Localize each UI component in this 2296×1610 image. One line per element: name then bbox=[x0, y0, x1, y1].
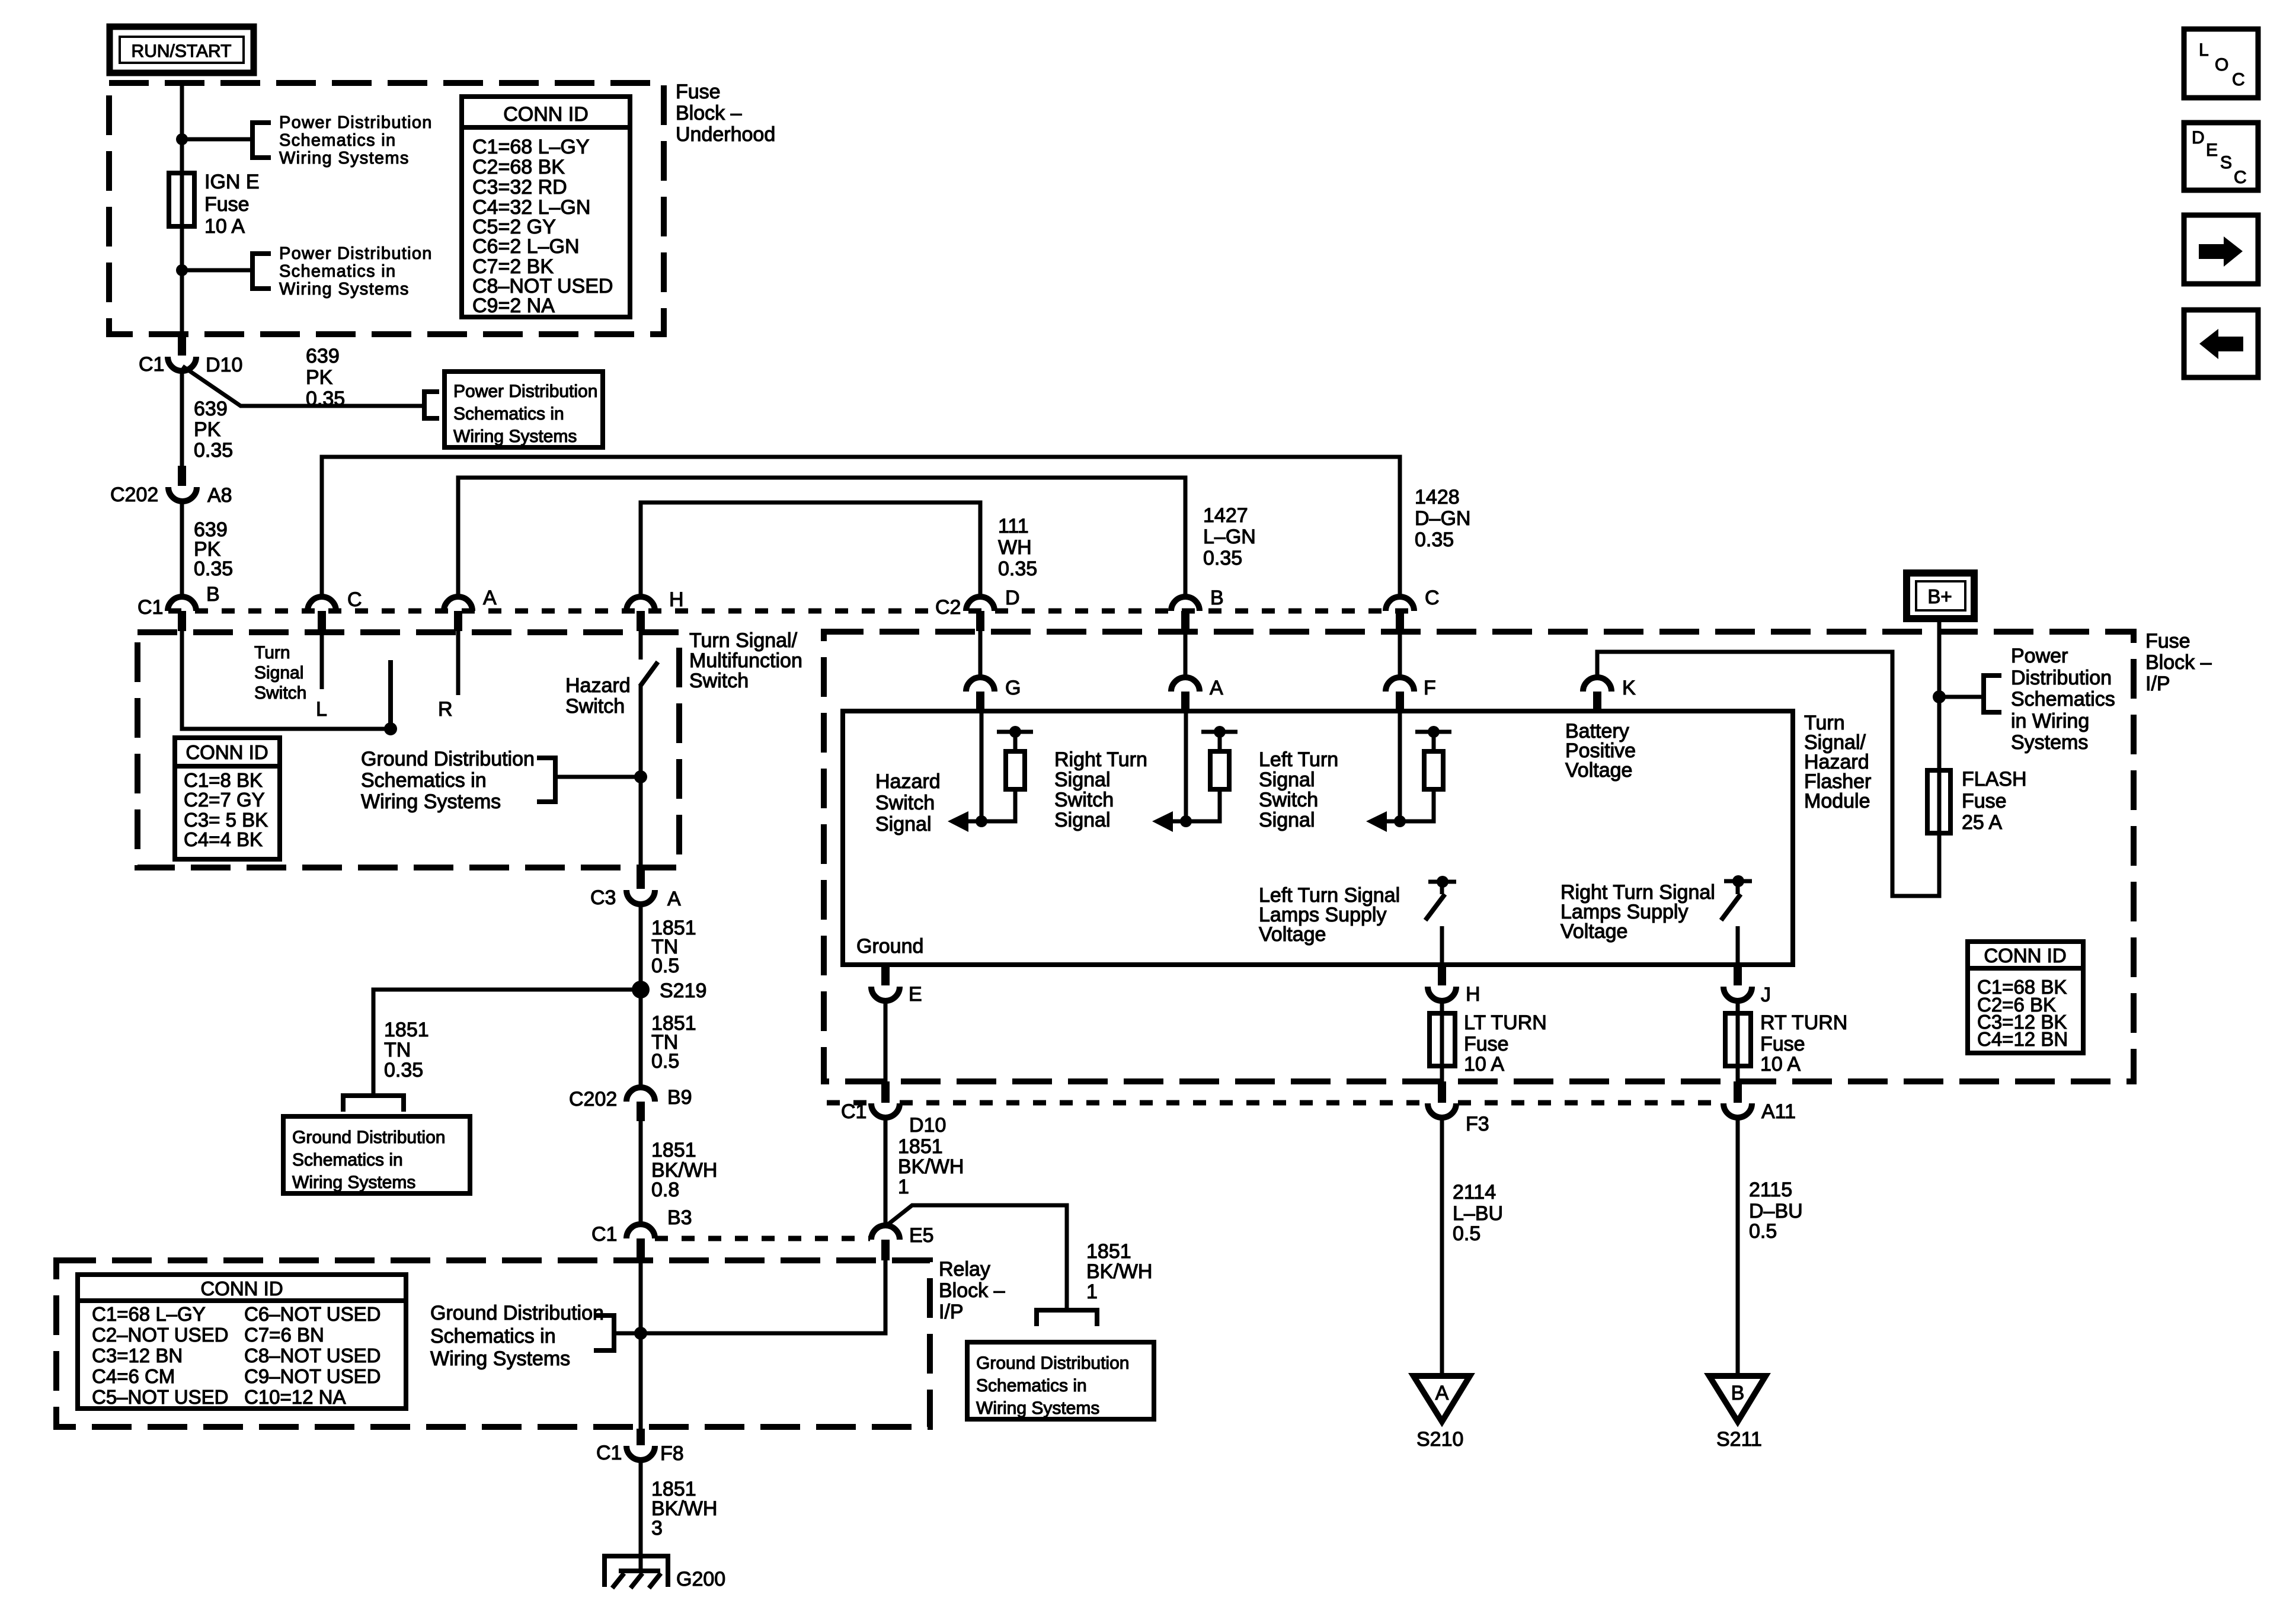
connector A arc (flasher module) bbox=[1171, 677, 1200, 692]
svg-text:F8: F8 bbox=[660, 1442, 684, 1465]
svg-text:LT TURN: LT TURN bbox=[1464, 1012, 1547, 1034]
label hazard switch bbox=[565, 674, 631, 718]
wire label 639 PK 0.35 (branch to power distribution) bbox=[306, 345, 345, 410]
connector C2 pin D arc bbox=[966, 597, 994, 611]
svg-text:25 A: 25 A bbox=[1962, 811, 2002, 834]
svg-text:Underhood: Underhood bbox=[676, 123, 775, 146]
connector H terminal cup bbox=[1428, 987, 1456, 1001]
legend left arrow box bbox=[2184, 310, 2258, 377]
label right turn signal lamps supply voltage bbox=[1560, 881, 1715, 943]
reference text ground distribution schematics (switch) bbox=[361, 748, 535, 813]
svg-text:0.35: 0.35 bbox=[1203, 547, 1242, 569]
svg-text:Voltage: Voltage bbox=[1560, 920, 1627, 943]
svg-text:C: C bbox=[347, 588, 362, 611]
connector C1 D10 pin bar bbox=[178, 337, 186, 356]
flasher module box U1 bbox=[843, 711, 1793, 965]
connector E terminal cup bbox=[871, 987, 900, 1001]
right turn input channel wire A bbox=[1184, 711, 1188, 821]
svg-text:Ground Distribution: Ground Distribution bbox=[430, 1302, 604, 1324]
svg-text:I/P: I/P bbox=[2145, 673, 2170, 695]
svg-text:0.8: 0.8 bbox=[651, 1179, 679, 1201]
svg-text:Wiring Systems: Wiring Systems bbox=[361, 790, 501, 813]
fuse RT TURN 10A bbox=[1725, 1013, 1751, 1066]
svg-text:C4=4 BK: C4=4 BK bbox=[184, 828, 263, 850]
svg-text:0.35: 0.35 bbox=[194, 439, 233, 462]
wire S219 branch to ground reference bbox=[373, 990, 641, 1093]
wire ground junction to C1 F8 bbox=[639, 1333, 643, 1430]
wire J to RT TURN fuse bbox=[1736, 999, 1740, 1013]
wire label 1851 BK/WH 3 bbox=[651, 1478, 717, 1539]
node RUN/START voltage box bbox=[110, 27, 254, 73]
svg-text:A: A bbox=[667, 888, 681, 910]
svg-text:Signal: Signal bbox=[875, 813, 932, 836]
svg-text:E5: E5 bbox=[909, 1224, 934, 1247]
junction hazard arrow node bbox=[976, 815, 987, 827]
svg-text:CONN ID: CONN ID bbox=[1984, 945, 2066, 966]
svg-text:C1: C1 bbox=[137, 596, 163, 619]
pin bar F bbox=[1396, 692, 1404, 711]
connector C202 A8 terminal cup bbox=[168, 487, 197, 501]
fuse block underhood dashed box bbox=[109, 83, 664, 334]
off-page bracket (switch ground reference) bbox=[537, 758, 555, 802]
connector J terminal cup bbox=[1723, 987, 1752, 1001]
pin bar C2C bbox=[1396, 611, 1404, 631]
svg-text:Signal: Signal bbox=[1259, 809, 1315, 831]
svg-text:Wiring Systems: Wiring Systems bbox=[279, 149, 410, 168]
svg-text:C2–NOT USED: C2–NOT USED bbox=[92, 1324, 228, 1346]
pin bar K bbox=[1593, 692, 1601, 711]
wire L contact stub bbox=[320, 631, 324, 689]
svg-text:C2=68 BK: C2=68 BK bbox=[472, 156, 565, 178]
svg-text:B: B bbox=[1731, 1382, 1745, 1404]
wire H to LT TURN fuse bbox=[1440, 999, 1444, 1013]
svg-text:0.5: 0.5 bbox=[1453, 1222, 1480, 1245]
svg-text:Ground Distribution: Ground Distribution bbox=[361, 748, 535, 770]
svg-text:Wiring Systems: Wiring Systems bbox=[279, 280, 410, 299]
label LT TURN Fuse 10 A bbox=[1464, 1012, 1547, 1076]
svg-text:S210: S210 bbox=[1416, 1428, 1463, 1451]
wire C202 B9 to C1 B3 bbox=[639, 1120, 643, 1225]
svg-text:Voltage: Voltage bbox=[1259, 923, 1326, 946]
off-page bracket down (S219 ground reference) bbox=[343, 1096, 404, 1112]
svg-text:Left Turn: Left Turn bbox=[1259, 748, 1338, 771]
svg-text:L–GN: L–GN bbox=[1203, 526, 1256, 548]
arrow left turn signal switch signal bbox=[1384, 820, 1400, 824]
resistor R1 tap bar bbox=[997, 730, 1033, 734]
wire bus H to D 111 WH bbox=[641, 502, 980, 597]
fuse block I/P dashed box bbox=[824, 632, 2134, 1081]
wire C3 A to S219 bbox=[639, 902, 643, 990]
svg-text:S219: S219 bbox=[660, 980, 706, 1002]
wire to ground distribution reference (switch) bbox=[558, 775, 641, 779]
connector C3 A terminal cup bbox=[626, 890, 655, 904]
svg-text:Power: Power bbox=[2011, 645, 2068, 667]
svg-text:Power Distribution: Power Distribution bbox=[453, 382, 597, 401]
svg-text:Switch: Switch bbox=[689, 670, 749, 692]
svg-text:B: B bbox=[1210, 587, 1224, 609]
svg-text:R: R bbox=[438, 698, 453, 721]
junction right turn arrow node bbox=[1180, 815, 1192, 827]
svg-text:10 A: 10 A bbox=[204, 215, 245, 238]
svg-text:Switch: Switch bbox=[1259, 789, 1318, 811]
off-page bracket down (E5 ground reference) bbox=[1037, 1310, 1097, 1326]
connector C3 A pin bar bbox=[637, 869, 645, 889]
svg-text:Switch: Switch bbox=[875, 792, 935, 814]
svg-text:A: A bbox=[1210, 677, 1223, 699]
wire C to F bbox=[1398, 631, 1402, 678]
reference text power distribution schematics (upper) bbox=[279, 113, 433, 168]
svg-text:Ground Distribution: Ground Distribution bbox=[976, 1353, 1129, 1373]
reference text power distribution schematics (I/P) bbox=[2011, 645, 2115, 754]
svg-text:J: J bbox=[1761, 984, 1771, 1006]
svg-text:C1=68 L–GY: C1=68 L–GY bbox=[472, 136, 590, 158]
wire R contact stub bbox=[456, 631, 461, 695]
svg-text:Systems: Systems bbox=[2011, 731, 2088, 754]
svg-text:Switch: Switch bbox=[254, 683, 306, 703]
svg-text:WH: WH bbox=[998, 536, 1032, 559]
wire label 1851 BK/WH 1 (ground branch) bbox=[1086, 1240, 1152, 1303]
wire left lamps output to module edge bbox=[1440, 926, 1444, 965]
svg-text:C202: C202 bbox=[110, 484, 158, 506]
wire bus C to C 1428 D-GN bbox=[322, 457, 1400, 597]
right turn lamps relay contact pivot bar bbox=[1724, 879, 1752, 884]
pin bar B3 bbox=[637, 1238, 645, 1260]
svg-text:1851: 1851 bbox=[898, 1135, 943, 1158]
svg-text:D10: D10 bbox=[206, 354, 242, 376]
svg-text:Fuse: Fuse bbox=[676, 81, 721, 103]
switch blade left turn lamps bbox=[1425, 894, 1445, 920]
svg-text:RT TURN: RT TURN bbox=[1760, 1012, 1847, 1034]
wire label 111 WH 0.35 bbox=[998, 515, 1037, 580]
svg-text:Switch: Switch bbox=[1054, 789, 1114, 811]
wire branch to power distribution reference (upper) bbox=[182, 137, 250, 142]
relay block I/P dashed box bbox=[56, 1260, 930, 1427]
svg-text:C1: C1 bbox=[591, 1223, 617, 1246]
svg-text:C3=12 BN: C3=12 BN bbox=[92, 1345, 183, 1366]
resistor R2 tap bar bbox=[1201, 730, 1237, 734]
wire branch to power distribution reference (I/P) bbox=[1939, 695, 1981, 699]
svg-text:Schematics in: Schematics in bbox=[279, 131, 396, 150]
wire hazard switch feed from H bbox=[639, 631, 643, 660]
svg-text:Schematics in: Schematics in bbox=[430, 1325, 556, 1347]
svg-text:Fuse: Fuse bbox=[1962, 790, 2007, 812]
off-page bracket (I/P power distribution) bbox=[1984, 676, 2001, 712]
svg-text:Block –: Block – bbox=[676, 102, 742, 124]
connector C1 B3 arc bbox=[626, 1224, 655, 1238]
svg-text:111: 111 bbox=[998, 515, 1029, 537]
label hazard switch signal bbox=[875, 770, 941, 836]
label right turn signal switch signal bbox=[1054, 748, 1147, 831]
pin bar B2 bbox=[1181, 611, 1189, 631]
svg-text:C9–NOT USED: C9–NOT USED bbox=[244, 1365, 380, 1387]
svg-text:IGN E: IGN E bbox=[204, 171, 260, 193]
pin bar G bbox=[976, 692, 984, 711]
wire tap to R2 bbox=[1218, 732, 1222, 751]
junction R2 tap bbox=[1214, 726, 1226, 738]
off-page bracket (upper power distribution) bbox=[252, 123, 271, 158]
CONN ID table relay block bbox=[78, 1275, 406, 1409]
svg-text:C4=6 CM: C4=6 CM bbox=[92, 1365, 175, 1387]
wire C1 F8 to G200 bbox=[639, 1458, 643, 1571]
legend DESC box bbox=[2184, 123, 2258, 190]
hazard input channel wire G bbox=[980, 711, 984, 821]
svg-text:C202: C202 bbox=[569, 1088, 617, 1110]
connector E pin bar (module ground) bbox=[881, 965, 890, 985]
svg-text:BK/WH: BK/WH bbox=[898, 1156, 964, 1178]
connector F3 terminal cup bbox=[1428, 1103, 1456, 1118]
svg-text:G: G bbox=[1005, 677, 1021, 699]
pin bar A (module) bbox=[1181, 692, 1189, 711]
svg-text:1428: 1428 bbox=[1415, 486, 1460, 508]
label RT TURN Fuse 10 A bbox=[1760, 1012, 1847, 1076]
svg-text:C3: C3 bbox=[590, 886, 616, 909]
connector C202 A8 pin bar bbox=[178, 466, 186, 486]
pin bar E5 bbox=[881, 1240, 890, 1260]
svg-text:C1: C1 bbox=[139, 353, 164, 376]
connector C1 D10 terminal cup bbox=[168, 357, 196, 371]
svg-text:E: E bbox=[2206, 140, 2218, 160]
svg-text:CONN ID: CONN ID bbox=[186, 741, 268, 763]
connector C1 pin A arc bbox=[444, 597, 472, 611]
svg-text:Ground Distribution: Ground Distribution bbox=[292, 1128, 445, 1147]
svg-text:Hazard: Hazard bbox=[565, 674, 631, 697]
svg-text:A8: A8 bbox=[207, 484, 232, 507]
hazard switch blade bbox=[640, 662, 658, 686]
wire R2 to arrow node bbox=[1186, 789, 1220, 821]
label left turn signal lamps supply voltage bbox=[1259, 884, 1400, 946]
label C2 (switch connector row) bbox=[932, 596, 966, 616]
left turn input channel wire F bbox=[1398, 711, 1402, 821]
svg-text:2115: 2115 bbox=[1749, 1179, 1792, 1201]
svg-text:C5–NOT USED: C5–NOT USED bbox=[92, 1386, 228, 1408]
pin bar H bbox=[637, 611, 645, 631]
splice S211 triangle bbox=[1709, 1376, 1766, 1422]
svg-text:C1=68 L–GY: C1=68 L–GY bbox=[92, 1303, 206, 1325]
label turn signal/hazard flasher module bbox=[1804, 712, 1871, 812]
wire F3 to S210 bbox=[1440, 1116, 1444, 1376]
splice S210 triangle bbox=[1414, 1376, 1470, 1422]
svg-text:Fuse: Fuse bbox=[1760, 1033, 1805, 1055]
reference text power distribution schematics (lower) bbox=[279, 244, 433, 299]
svg-text:L: L bbox=[316, 698, 327, 721]
svg-text:Schematics in: Schematics in bbox=[279, 262, 396, 281]
wire D to G bbox=[978, 631, 983, 678]
wire D10 down to E5 bbox=[884, 1116, 888, 1227]
wire diagonal from C1 D10 to reference bbox=[183, 366, 422, 406]
resistor R3 tap bar bbox=[1415, 730, 1451, 734]
connector C1 F8 pin bar bbox=[637, 1429, 645, 1445]
svg-text:L–BU: L–BU bbox=[1453, 1202, 1503, 1225]
junction R3 tap bbox=[1428, 726, 1440, 738]
wire label 1851 TN 0.5 (C3 to S219) bbox=[651, 917, 696, 977]
wire IGN E fuse to C1 D10 connector bbox=[180, 226, 184, 338]
connector row dotted line B3 to E5 bbox=[655, 1236, 870, 1241]
fuse LT TURN 10A bbox=[1430, 1013, 1455, 1066]
connector J pin bar (module right lamps) bbox=[1734, 965, 1742, 985]
connector C1 pin H arc bbox=[626, 597, 655, 611]
connector C2 pin B arc bbox=[1171, 597, 1200, 611]
wire B3 down to ground junction bbox=[639, 1260, 643, 1333]
svg-text:B+: B+ bbox=[1927, 585, 1952, 607]
junction left lamps pivot bbox=[1437, 876, 1448, 888]
junction ground tie in relay block bbox=[634, 1327, 647, 1340]
svg-text:H: H bbox=[669, 588, 684, 611]
junction hazard ground reference bbox=[634, 770, 647, 783]
off-page bracket (power distribution boxed reference) bbox=[424, 392, 439, 418]
connector row dotted line C1/C2 bbox=[168, 609, 1414, 614]
svg-text:A11: A11 bbox=[1761, 1100, 1796, 1123]
resistor R2 bbox=[1210, 751, 1229, 789]
wire pivot stub bbox=[1440, 882, 1444, 894]
connector C1 pin B arc bbox=[168, 597, 196, 611]
label relay block I/P bbox=[939, 1258, 1005, 1323]
wire label 1428 D-GN 0.35 bbox=[1415, 486, 1470, 551]
svg-text:PK: PK bbox=[194, 418, 221, 441]
wire label 639 PK 0.35 (C1 D10 to C202 A8) bbox=[194, 398, 233, 462]
svg-text:Power Distribution: Power Distribution bbox=[279, 244, 433, 263]
fuse IGN E 10A bbox=[169, 173, 194, 226]
svg-text:Fuse: Fuse bbox=[204, 193, 250, 216]
label fuse block I/P bbox=[2145, 630, 2212, 695]
pin bar B bbox=[178, 611, 186, 631]
svg-text:C2=7 GY: C2=7 GY bbox=[184, 789, 265, 811]
wire C202 A8 to C1 B bbox=[180, 501, 184, 597]
switch blade right turn lamps bbox=[1721, 894, 1741, 920]
svg-text:1851: 1851 bbox=[651, 1139, 696, 1161]
connector G arc (flasher module) bbox=[966, 677, 994, 692]
svg-text:2114: 2114 bbox=[1453, 1181, 1496, 1204]
svg-text:639: 639 bbox=[194, 398, 228, 420]
pin bar C bbox=[318, 611, 326, 631]
wire RUN/START feed down to IGN E fuse bbox=[180, 83, 184, 173]
svg-text:1851: 1851 bbox=[384, 1019, 429, 1041]
label IGN E Fuse 10 A bbox=[204, 171, 260, 238]
junction on ignition feed (upper) bbox=[176, 133, 188, 145]
connector C1 D10 terminal cup (I/P) bbox=[871, 1103, 900, 1118]
wire bus A to B 1427 L-GN bbox=[458, 478, 1185, 597]
connector C1 F8 terminal cup bbox=[626, 1446, 655, 1460]
wire B to A (module) bbox=[1184, 631, 1188, 678]
svg-text:Module: Module bbox=[1804, 790, 1870, 812]
wire A11 to S211 bbox=[1736, 1116, 1740, 1376]
wire diagonal branch to ground reference (E5 tap) bbox=[887, 1205, 1067, 1308]
svg-text:C4=12 BN: C4=12 BN bbox=[1977, 1028, 2068, 1050]
wire bracket to ground junction bbox=[614, 1331, 641, 1336]
svg-text:C6–NOT USED: C6–NOT USED bbox=[244, 1303, 380, 1325]
svg-text:C9=2 NA: C9=2 NA bbox=[472, 295, 555, 317]
label battery positive voltage bbox=[1565, 720, 1636, 782]
wire tap to R1 bbox=[1013, 732, 1018, 751]
connector H pin bar (module left lamps) bbox=[1438, 965, 1446, 985]
svg-text:S: S bbox=[2220, 153, 2232, 172]
pin bar D bbox=[976, 611, 984, 631]
svg-text:in Wiring: in Wiring bbox=[2011, 710, 2089, 732]
wire label 1851 TN 0.35 bbox=[384, 1019, 429, 1081]
junction left turn arrow node bbox=[1394, 815, 1406, 827]
svg-text:639: 639 bbox=[306, 345, 340, 367]
wire B+ feed down bbox=[1937, 619, 1942, 770]
svg-text:H: H bbox=[1466, 983, 1480, 1006]
legend right arrow box bbox=[2184, 215, 2258, 284]
svg-text:10 A: 10 A bbox=[1760, 1053, 1801, 1076]
wire S219 to C202 B9 bbox=[639, 990, 643, 1089]
svg-text:Schematics in: Schematics in bbox=[976, 1376, 1087, 1395]
connector C1 D10 pin bar (I/P) bbox=[881, 1081, 890, 1103]
svg-text:D: D bbox=[2192, 128, 2205, 148]
svg-text:Fuse: Fuse bbox=[2145, 630, 2191, 652]
svg-text:Power Distribution: Power Distribution bbox=[279, 113, 433, 132]
turn signal / multifunction switch dashed box bbox=[137, 632, 679, 868]
wire tap to R3 bbox=[1432, 732, 1436, 751]
pin bar A bbox=[454, 611, 462, 631]
fuse block underhood label bbox=[676, 81, 775, 146]
svg-text:Distribution: Distribution bbox=[2011, 667, 2112, 689]
wire label 1851 TN 0.5 (S219 to C202 B9) bbox=[651, 1012, 696, 1073]
svg-text:A: A bbox=[483, 587, 497, 609]
arrow right turn signal switch signal bbox=[1171, 820, 1186, 824]
svg-text:Schematics: Schematics bbox=[2011, 688, 2115, 710]
wire label 639 PK 0.35 (C202 A8 to C1 B) bbox=[194, 518, 233, 580]
junction right lamps pivot bbox=[1732, 875, 1744, 887]
wire LT TURN fuse to F3 bbox=[1440, 1066, 1444, 1083]
wire pivot stub right bbox=[1736, 881, 1740, 894]
pin bar B9 bbox=[637, 1102, 645, 1121]
svg-text:RUN/START: RUN/START bbox=[132, 41, 232, 61]
connector F3 pin bar bbox=[1438, 1081, 1446, 1103]
wire hazard switch to C3 A bbox=[639, 684, 643, 870]
svg-text:Turn Signal/: Turn Signal/ bbox=[689, 629, 798, 652]
svg-text:1427: 1427 bbox=[1203, 504, 1248, 527]
wire RT TURN fuse to A11 bbox=[1736, 1066, 1740, 1083]
svg-text:C: C bbox=[2234, 168, 2247, 187]
svg-text:C8–NOT USED: C8–NOT USED bbox=[244, 1345, 380, 1366]
wire branch to power distribution reference (lower) bbox=[182, 268, 250, 273]
svg-text:CONN ID: CONN ID bbox=[200, 1278, 283, 1299]
svg-text:Block –: Block – bbox=[2145, 651, 2212, 674]
svg-text:Wiring Systems: Wiring Systems bbox=[430, 1347, 570, 1370]
CONN ID table fuse block I/P bbox=[1968, 942, 2083, 1053]
svg-text:1: 1 bbox=[1086, 1281, 1098, 1303]
svg-text:10 A: 10 A bbox=[1464, 1053, 1504, 1076]
svg-text:B3: B3 bbox=[667, 1206, 692, 1229]
svg-text:C: C bbox=[2232, 70, 2245, 89]
svg-text:A: A bbox=[1435, 1382, 1449, 1404]
svg-text:Hazard: Hazard bbox=[875, 770, 941, 793]
legend LOC box bbox=[2184, 29, 2258, 98]
turn signal switch common blade bbox=[388, 660, 393, 725]
svg-text:C10=12 NA: C10=12 NA bbox=[244, 1386, 346, 1408]
svg-text:C3= 5 BK: C3= 5 BK bbox=[184, 809, 268, 831]
svg-text:1: 1 bbox=[898, 1176, 909, 1198]
svg-text:BK/WH: BK/WH bbox=[1086, 1260, 1152, 1283]
svg-text:Schematics in: Schematics in bbox=[361, 769, 487, 792]
label turn signal/multifunction switch bbox=[689, 629, 802, 692]
svg-text:3: 3 bbox=[651, 1517, 663, 1539]
svg-text:0.5: 0.5 bbox=[1749, 1220, 1777, 1243]
fuse FLASH 25A bbox=[1927, 770, 1950, 833]
svg-text:L: L bbox=[2199, 40, 2209, 60]
svg-text:C2: C2 bbox=[935, 596, 961, 619]
svg-text:O: O bbox=[2215, 55, 2228, 75]
wire E5 leg to ground junction bbox=[641, 1260, 885, 1333]
connector C2 pin C arc bbox=[1386, 597, 1414, 611]
svg-text:Signal: Signal bbox=[254, 663, 303, 683]
reference text ground distribution schematics (relay block) bbox=[430, 1302, 604, 1370]
wire C1 D10 to C202 A8 bbox=[180, 369, 184, 468]
connector F arc (flasher module) bbox=[1386, 677, 1414, 692]
svg-text:0.35: 0.35 bbox=[998, 558, 1037, 580]
svg-text:C6=2 L–GN: C6=2 L–GN bbox=[472, 235, 580, 258]
